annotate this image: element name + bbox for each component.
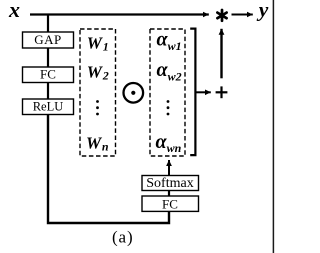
operator: + (sum) xyxy=(216,86,228,98)
svg-text:x: x xyxy=(8,0,20,22)
wire: ReLU down, along bottom, up to FC (bottom) xyxy=(48,115,169,224)
wire: GAP to FC xyxy=(47,48,49,67)
wire: FC to ReLU xyxy=(47,83,49,100)
wire: * to y (arrow) xyxy=(232,14,253,16)
vdots in alpha box xyxy=(167,100,170,115)
wire: + up to * (arrow) xyxy=(220,29,222,79)
bracket (right square bracket around alpha box) xyxy=(190,29,195,156)
wire: junction down from top wire to GAP xyxy=(47,14,49,32)
svg-text:FC: FC xyxy=(162,196,178,211)
box Softmax xyxy=(142,176,199,191)
operator: element-wise product (circled dot) xyxy=(124,83,144,103)
box FC (bottom) xyxy=(142,196,199,211)
svg-text:FC: FC xyxy=(40,66,56,81)
dashed box: attention weights alpha xyxy=(150,29,185,156)
wire: FC to Softmax xyxy=(168,191,170,196)
svg-text:Softmax: Softmax xyxy=(146,176,193,191)
svg-text:(a): (a) xyxy=(112,228,134,247)
box GAP xyxy=(23,32,74,48)
box ReLU xyxy=(23,99,74,115)
wire: top horizontal from x to * (arrow) xyxy=(30,13,209,15)
wire: bracket to + (arrow) xyxy=(197,91,211,93)
operator: * (convolution) xyxy=(217,10,226,21)
right page border line xyxy=(272,0,274,253)
box FC xyxy=(23,67,74,83)
wire: Softmax up to alpha box (arrow) xyxy=(168,160,170,176)
svg-text:ReLU: ReLU xyxy=(33,100,64,114)
dashed box: weights W xyxy=(80,29,116,156)
svg-text:GAP: GAP xyxy=(34,32,62,47)
vdots in W box xyxy=(96,100,99,115)
